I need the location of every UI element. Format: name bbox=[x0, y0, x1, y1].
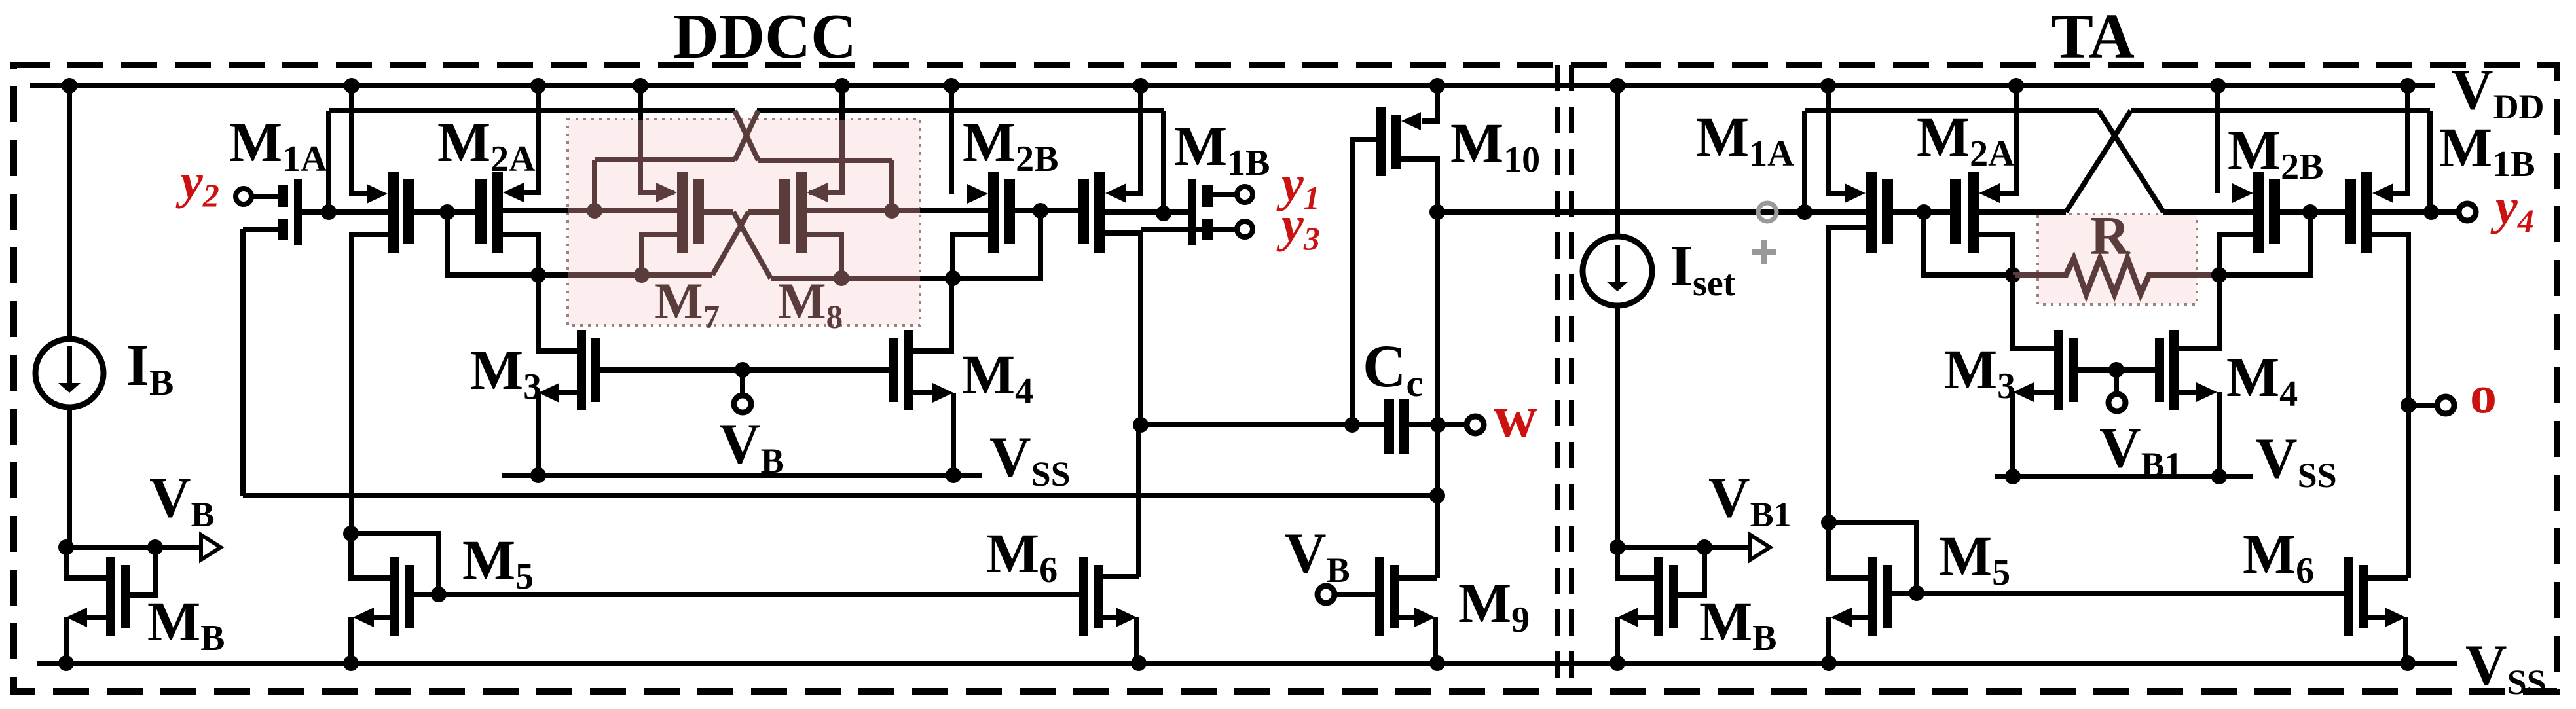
svg-text:o: o bbox=[2470, 365, 2497, 424]
svg-text:R: R bbox=[2090, 206, 2131, 266]
svg-text:TA: TA bbox=[2051, 1, 2135, 71]
svg-text:DDCC: DDCC bbox=[673, 1, 856, 71]
svg-text:w: w bbox=[1494, 383, 1537, 450]
